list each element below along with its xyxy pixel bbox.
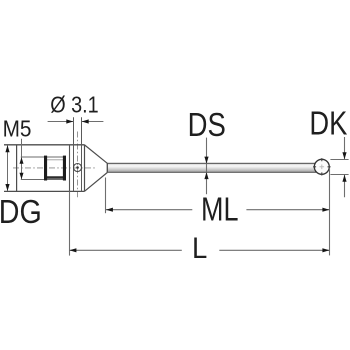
svg-text:ML: ML [201, 190, 239, 227]
svg-text:L: L [192, 232, 207, 265]
svg-text:Ø 3.1: Ø 3.1 [50, 92, 98, 118]
svg-text:DG: DG [0, 193, 42, 230]
svg-text:DK: DK [309, 105, 347, 142]
svg-text:DS: DS [188, 106, 226, 143]
svg-text:M5: M5 [3, 116, 32, 142]
